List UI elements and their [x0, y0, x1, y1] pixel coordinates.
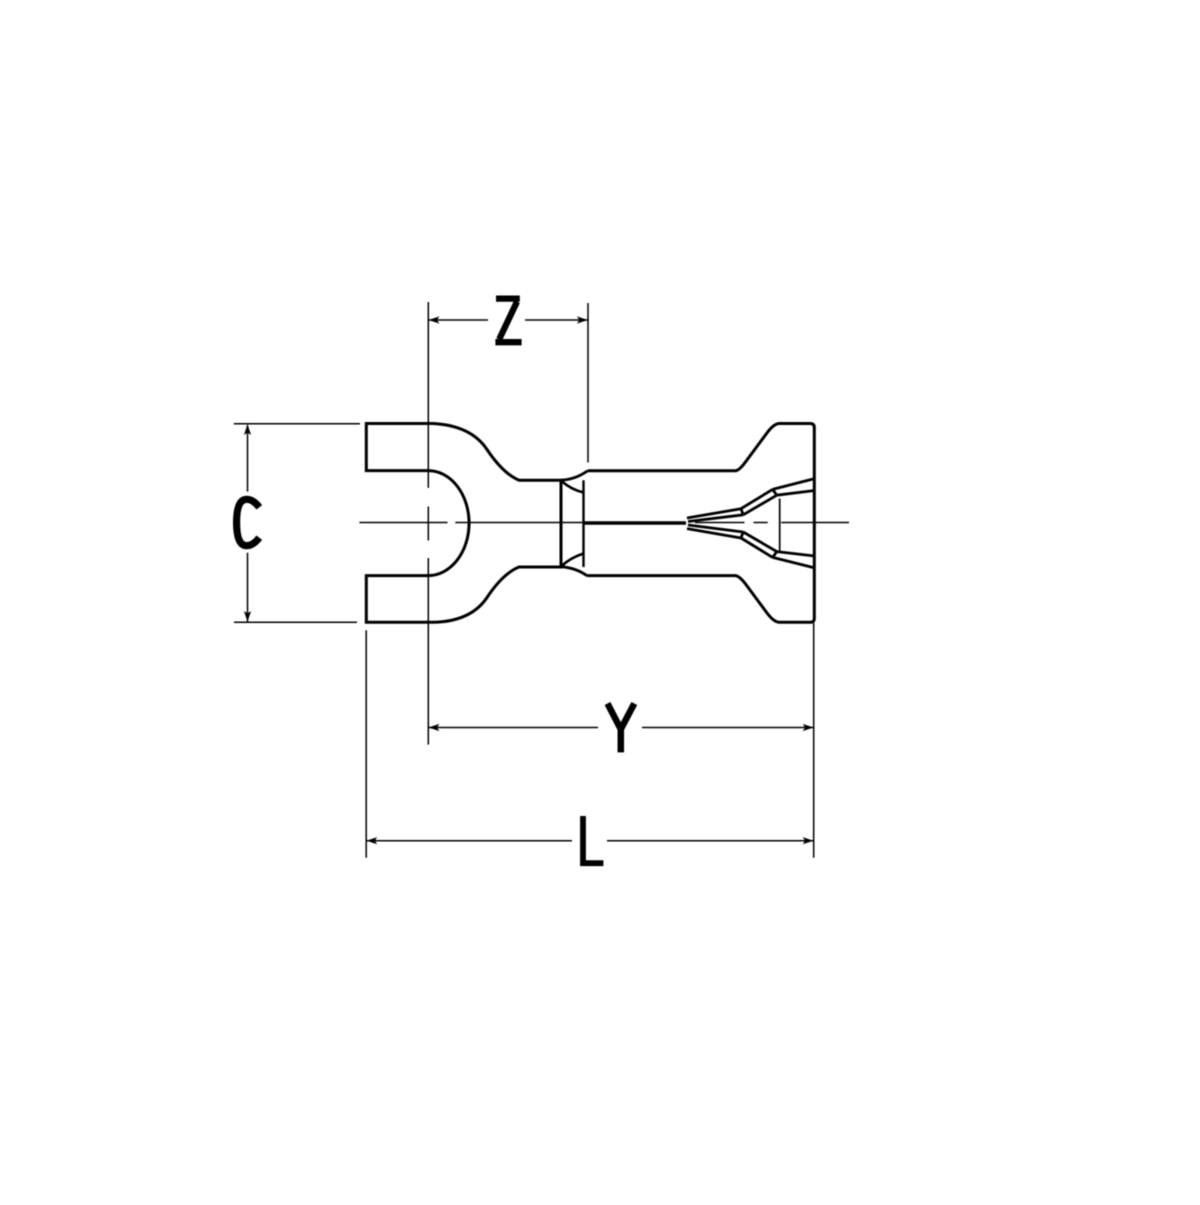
- dimension Z line: [429, 319, 588, 321]
- wire entry funnel lower cone: [687, 525, 814, 568]
- dimension L/Y extension line right: [813, 623, 815, 858]
- funnel far-end vertical edge: [779, 499, 781, 552]
- vertical centerline through fork slot center (Z/Y extension): [427, 302, 429, 745]
- insulation flare upper outer curve: [561, 471, 588, 480]
- insulation flare upper inner curve: [562, 481, 584, 493]
- label L: [583, 816, 603, 863]
- insulation flare lower inner curve: [562, 554, 584, 567]
- dimension Z extension line right: [587, 303, 589, 463]
- dimension C extension line top: [234, 423, 360, 425]
- insulation sleeve outline: [588, 424, 815, 623]
- horizontal centerline axis: [359, 522, 849, 524]
- dimension L extension line left: [365, 630, 367, 858]
- dimension Y right arrow: [803, 724, 814, 731]
- wire barrel seam line: [584, 521, 687, 525]
- label C: [237, 499, 260, 545]
- dimension C top arrow: [244, 424, 251, 435]
- insulation bore opening vertical edge: [582, 480, 584, 567]
- dimension Z right arrow: [577, 316, 588, 323]
- label Y: [608, 704, 635, 753]
- label Z: [495, 299, 521, 343]
- dimension L left arrow: [366, 837, 377, 844]
- wire entry funnel upper cone: [687, 479, 814, 522]
- dimension Y line: [429, 727, 813, 729]
- insulation flare lower outer curve: [561, 567, 588, 576]
- dimension C extension line bottom: [234, 621, 357, 623]
- dimension C bottom arrow: [244, 611, 251, 622]
- dimension C line: [247, 425, 249, 622]
- dimension L right arrow: [803, 837, 814, 844]
- dimension Y left arrow: [429, 724, 440, 731]
- dimension L line: [367, 840, 813, 842]
- dimension Z left arrow: [429, 316, 440, 323]
- fork terminal metal outline: [366, 424, 561, 623]
